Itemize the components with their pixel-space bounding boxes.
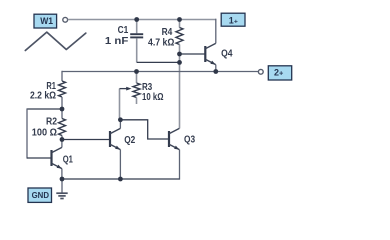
junction R1 R2 bbox=[60, 107, 65, 112]
R3 wiper arrow bbox=[120, 87, 132, 120]
svg-text:100 Ω: 100 Ω bbox=[32, 128, 57, 139]
svg-text:2.2 kΩ: 2.2 kΩ bbox=[30, 90, 56, 101]
transistor Q1 bbox=[52, 140, 62, 180]
W1 terminal circle bbox=[63, 17, 68, 22]
svg-text:GND: GND bbox=[32, 191, 49, 200]
W1 label box bbox=[34, 14, 57, 28]
transistor Q2 bbox=[110, 120, 120, 179]
svg-text:Q1: Q1 bbox=[63, 154, 74, 165]
wire R2 bottom to Q2 base bbox=[62, 139, 110, 141]
svg-text:1 nF: 1 nF bbox=[105, 36, 128, 47]
resistor R1 bbox=[59, 71, 66, 109]
wire left feedback loop bbox=[27, 108, 62, 110]
resistor R4 bbox=[176, 20, 183, 129]
transistor Q3 bbox=[169, 128, 180, 179]
wire top rail corner down to Q4 collector bbox=[215, 19, 217, 44]
junction Q2 collector bbox=[118, 117, 123, 122]
junction C1 bottom bbox=[177, 60, 182, 65]
junction R2 bottom bbox=[60, 137, 65, 142]
wire Q2 collector to Q3 base (jog) bbox=[120, 120, 169, 139]
wire ground rail bbox=[62, 178, 180, 180]
junction Q4 emitter bbox=[213, 69, 218, 74]
ground bbox=[56, 179, 67, 199]
svg-text:2+: 2+ bbox=[274, 68, 284, 78]
svg-text:10 kΩ: 10 kΩ bbox=[142, 92, 164, 103]
resistor R2 bbox=[59, 109, 66, 140]
2+ label box bbox=[268, 66, 291, 80]
svg-text:Q3: Q3 bbox=[184, 135, 195, 146]
triangle wave icon bbox=[25, 32, 86, 50]
svg-text:Q4: Q4 bbox=[221, 49, 233, 60]
wire top rail bbox=[68, 19, 216, 21]
svg-text:R4: R4 bbox=[162, 27, 173, 38]
wire C1 bottom to R4 column bbox=[137, 61, 180, 63]
1+ label box bbox=[221, 13, 245, 26]
junction R4 top bbox=[177, 17, 182, 22]
GND label box bbox=[28, 188, 52, 202]
junction Q1 emitter bbox=[60, 177, 65, 182]
capacitor C1 bbox=[130, 20, 143, 63]
transistor Q4 bbox=[205, 43, 216, 71]
svg-text:R2: R2 bbox=[46, 117, 57, 128]
svg-text:Q2: Q2 bbox=[124, 135, 135, 146]
svg-text:W1: W1 bbox=[40, 16, 53, 26]
junction Q2 emitter bbox=[118, 177, 123, 182]
wire 2+ rail bbox=[62, 71, 259, 73]
junction Q4 base bbox=[177, 52, 182, 57]
wire Q4 base bbox=[180, 53, 206, 55]
resistor R3 (rheostat) bbox=[133, 72, 140, 105]
2+ terminal circle bbox=[258, 69, 263, 74]
svg-text:4.7 kΩ: 4.7 kΩ bbox=[148, 38, 174, 49]
junction C1 top bbox=[134, 17, 139, 22]
svg-text:C1: C1 bbox=[118, 25, 129, 36]
junction R3 top bbox=[134, 69, 139, 74]
